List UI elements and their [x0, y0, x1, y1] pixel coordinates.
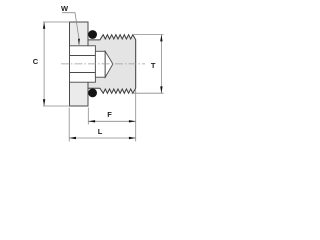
- L extension line (left face): [68, 108, 70, 142]
- L arrow left: [69, 137, 76, 139]
- F arrow right: [129, 120, 136, 122]
- F arrow left: [88, 120, 95, 122]
- T extension line bottom: [132, 92, 164, 94]
- svg-text:C: C: [33, 57, 39, 66]
- svg-text:F: F: [107, 110, 112, 119]
- C extension line top: [43, 21, 70, 23]
- svg-text:T: T: [151, 61, 156, 70]
- W leader line: [62, 13, 79, 45]
- C arrow up: [43, 22, 45, 29]
- W leader arrow: [78, 39, 80, 46]
- hex head: [70, 22, 89, 106]
- L dimension line: [69, 137, 136, 139]
- C dimension line: [43, 22, 45, 106]
- T extension line top: [133, 34, 164, 36]
- svg-text:L: L: [98, 127, 103, 136]
- T dimension line: [160, 35, 162, 94]
- drill cone: [105, 51, 113, 77]
- F extension line (head face): [87, 108, 89, 125]
- O-ring (bottom): [88, 89, 97, 98]
- L arrow right: [129, 137, 136, 139]
- svg-text:W: W: [61, 4, 69, 13]
- hex socket cavity: [70, 46, 96, 82]
- end face extension line: [135, 90, 137, 142]
- F dimension line: [88, 120, 135, 122]
- centerline: [61, 63, 145, 65]
- plug body (threaded shaft, section fill): [88, 35, 136, 94]
- T arrow down: [160, 86, 162, 93]
- socket pilot bore: [95, 51, 105, 77]
- T arrow up: [160, 35, 162, 42]
- C arrow down: [43, 99, 45, 106]
- socket hex flat line (top): [70, 55, 96, 57]
- C extension line bottom: [43, 105, 70, 107]
- socket hex flat line (bottom): [70, 72, 96, 74]
- O-ring (top): [88, 30, 97, 39]
